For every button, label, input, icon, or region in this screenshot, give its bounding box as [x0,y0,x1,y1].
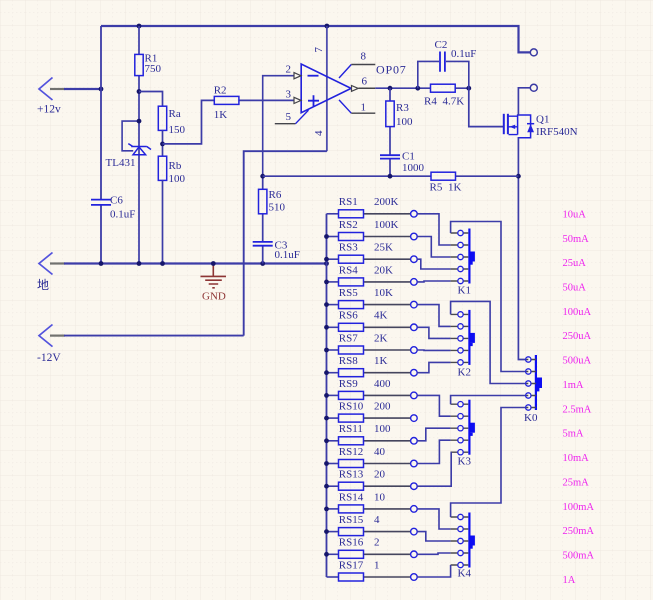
svg-text:RS8: RS8 [339,355,358,367]
node rail bus [324,261,329,266]
wire R6 branch [262,176,264,263]
op-amp pin5 stub [275,110,309,124]
node rail x139 [137,261,142,266]
wire R2 net [163,100,295,143]
svg-text:RS1: RS1 [339,196,358,208]
svg-text:10mA: 10mA [563,453,590,464]
svg-text:RS3: RS3 [339,242,358,254]
net label 10mA [563,453,590,464]
wire RS8-K2c5 [417,362,450,372]
svg-text:RS5: RS5 [339,287,358,299]
resistor RS10 200 [327,401,418,423]
resistor RS12 40 [327,446,418,468]
net label 25uA [563,258,587,269]
node +12v [99,87,104,92]
node bus RS9 [324,393,329,398]
wire TL431 ref bracket [122,121,139,151]
resistor RS9 400 [327,378,418,400]
node bus RS5 [324,302,329,307]
wire RS12-K3c4 [417,440,450,463]
svg-text:1K: 1K [448,181,462,193]
svg-text:1: 1 [374,559,380,571]
svg-text:2K: 2K [374,332,388,344]
node rail x162 [160,261,165,266]
wire RS11-K3c3 [417,428,450,441]
node rail GND [211,261,216,266]
capacitor C1 [380,150,425,174]
svg-text:1000: 1000 [402,162,425,174]
node top-rail R1 [137,24,142,29]
node R5 row R3 [388,174,393,179]
svg-text:0.1uF: 0.1uF [110,208,135,220]
wire RS3-K1c4 [417,259,450,269]
node bus RS3 [324,257,329,262]
net label 1mA [563,380,584,391]
svg-text:K1: K1 [458,285,471,297]
svg-text:5mA: 5mA [563,429,584,440]
svg-text:6: 6 [362,76,368,88]
node bus RS7 [324,348,329,353]
wire RS16-K4c4 [417,553,450,554]
wire output row [375,87,469,89]
resistor R5 [430,172,462,193]
svg-text:20K: 20K [374,264,393,276]
capacitor C2 [418,39,477,88]
wire top +12V rail [101,26,530,52]
terminal circle T2 [530,84,537,91]
net label 50mA [563,234,590,245]
svg-text:8: 8 [361,51,367,63]
capacitor C6 [91,195,135,221]
svg-text:TL431: TL431 [106,157,136,169]
svg-text:500mA: 500mA [563,551,595,562]
wire RS5-K2c2 [417,305,450,327]
wire R1 to Ra [139,92,163,107]
node TL431 ref [137,119,142,124]
switch K3 [451,400,475,468]
resistor RS6 4K [327,310,418,332]
net label 5mA [563,429,584,440]
net label 1A [563,575,576,586]
svg-text:2: 2 [374,537,380,549]
op-amp pin3 arrow [286,88,302,103]
wire R1 branch x139 [138,26,140,264]
net label 25mA [563,478,590,489]
svg-text:1K: 1K [214,109,228,121]
resistor RS8 1K [327,355,418,377]
svg-text:+12v: +12v [37,104,61,116]
svg-text:1mA: 1mA [563,380,584,391]
svg-text:IRF540N: IRF540N [536,126,578,138]
svg-text:RS15: RS15 [339,514,364,526]
svg-text:0.1uF: 0.1uF [451,48,476,60]
resistor RS2 100K [327,219,418,241]
wire RS14-K4c2 [417,509,450,529]
svg-text:20: 20 [374,469,386,481]
svg-text:10: 10 [374,491,386,503]
op-amp pin7 label [313,47,325,53]
port GND-cn (地) [37,253,65,293]
svg-text:RS11: RS11 [339,423,363,435]
resistor Rb [158,156,185,185]
switch K0 [524,355,542,424]
wire left vertical x101 [100,26,102,264]
wire -12V to op-amp pin4 [64,151,327,335]
net label 50uA [563,283,587,294]
node bus RS6 [324,325,329,330]
op-amp pin4 label [313,130,325,136]
ground GND symbol [201,265,227,303]
resistor R6 [259,189,286,214]
wire RS9-K3c2 [417,395,450,416]
svg-text:RS14: RS14 [339,491,364,503]
wire K1 out to K0 c2 [451,222,526,372]
svg-text:K0: K0 [524,412,538,424]
wire K4 out to K0 c5 [451,408,526,518]
svg-text:RS7: RS7 [339,332,358,344]
op-amp pin1 stub [339,100,375,114]
resistor RS1 200K [327,196,418,218]
resistor RS15 4 [327,514,418,536]
svg-text:25uA: 25uA [563,258,587,269]
wire op-amp power vertical pins 7-4 [326,26,328,151]
svg-text:1A: 1A [563,575,576,586]
svg-text:R3: R3 [396,102,409,114]
svg-text:R2: R2 [214,85,227,97]
svg-text:C6: C6 [110,195,123,207]
node out R3 [388,86,393,91]
net label 500mA [563,551,595,562]
resistor R2 [214,85,239,121]
svg-text:RS12: RS12 [339,446,363,458]
svg-text:RS17: RS17 [339,559,364,571]
net label 10uA [563,209,587,220]
switch K2 [451,310,475,379]
svg-text:250uA: 250uA [563,331,592,342]
wire RS7-K2c4 [417,349,450,351]
node bus RS14 [324,507,329,512]
svg-text:RS16: RS16 [339,537,364,549]
svg-text:200K: 200K [374,196,399,208]
svg-text:100: 100 [169,173,186,185]
svg-text:100: 100 [374,423,391,435]
svg-text:2: 2 [286,64,292,76]
node Q1 source R5 row [516,174,521,179]
resistor RS5 10K [327,287,418,309]
svg-text:750: 750 [145,63,162,75]
wire RS4-K1c5 [417,280,450,283]
resistor RS4 20K [327,264,418,286]
svg-text:K3: K3 [458,456,472,468]
op-amp pin8 stub [339,51,375,79]
svg-text:-12V: -12V [37,352,61,364]
svg-text:Rb: Rb [169,160,182,172]
svg-text:5: 5 [286,111,292,123]
port -12V [37,325,65,365]
node out C2R [466,86,471,91]
net label 100uA [563,307,592,318]
svg-text:Q1: Q1 [536,114,549,126]
svg-text:400: 400 [374,378,391,390]
svg-text:OP07: OP07 [376,63,407,77]
node bus RS12 [324,461,329,466]
svg-text:100uA: 100uA [563,307,592,318]
wire gate route [469,88,504,126]
svg-text:25mA: 25mA [563,478,590,489]
svg-text:RS4: RS4 [339,264,358,276]
svg-text:GND: GND [202,291,226,303]
svg-text:100mA: 100mA [563,502,595,513]
node rail x262 [260,261,265,266]
wire Ra-Rb [162,130,164,156]
node bus RS15 [324,529,329,534]
svg-text:R4: R4 [424,96,437,108]
node top-rail pin7 [325,24,330,29]
op-amp pin2 arrow [286,64,302,79]
wire +12v to bus [64,88,101,90]
node bus RS8 [324,370,329,375]
capacitor C3 [253,239,300,261]
node bus RS16 [324,552,329,557]
svg-text:Ra: Ra [169,108,181,120]
node out C2L [415,86,420,91]
svg-text:RS9: RS9 [339,378,358,390]
node R1 bottom [137,89,142,94]
resistor RS11 100 [327,423,418,445]
resistor RS3 25K [327,242,418,264]
op-amp U1 OP07 body [301,63,406,113]
wire RS13-K3c5 [417,452,451,486]
wire op-amp pin2 net [263,76,294,177]
svg-text:地: 地 [37,278,49,292]
svg-text:50mA: 50mA [563,234,590,245]
svg-text:10uA: 10uA [563,209,587,220]
net label 2.5mA [563,404,592,415]
diode TL431 [106,144,152,169]
node rail x101 [99,261,104,266]
switch K1 [451,229,475,297]
node bus RS13 [324,484,329,489]
node pin2-R5 row [260,174,265,179]
svg-text:0.1uF: 0.1uF [275,249,300,261]
svg-text:510: 510 [269,202,286,214]
svg-text:K2: K2 [458,367,471,379]
wire ground rail [64,262,327,264]
svg-text:R5: R5 [430,181,443,193]
wire RS1-K1c2 [417,214,450,245]
wire K3 out to K0 c4 [451,396,526,405]
wire RS2-K1c3 [417,237,450,258]
wire Rb to ground rail [162,180,164,263]
resistor RS16 2 [327,537,418,559]
svg-text:K4: K4 [458,568,472,580]
switch K4 [451,513,475,580]
resistor R1 [135,53,162,76]
svg-text:200: 200 [374,401,391,413]
svg-text:2.5mA: 2.5mA [563,404,592,415]
node bus RS2 [324,234,329,239]
svg-text:C1: C1 [402,150,415,162]
resistor RS14 10 [327,491,418,513]
svg-text:3: 3 [286,88,292,100]
svg-text:250mA: 250mA [563,526,595,537]
resistor RS17 1 [327,559,418,581]
svg-text:100: 100 [396,116,413,128]
resistor RS7 2K [327,332,418,354]
wire Q1 source to K0 [518,138,525,360]
terminal circle T1 [530,49,537,56]
transistor Q1 IRF540N [504,114,578,138]
resistor R3 [386,101,413,128]
node bus RS10 [324,416,329,421]
svg-text:500uA: 500uA [563,356,592,367]
wire R3 branch [389,88,391,176]
resistor R4 [424,84,464,107]
svg-text:RS6: RS6 [339,310,358,322]
op-amp pin6 output arrow [352,76,376,92]
svg-text:150: 150 [169,124,186,136]
svg-text:R6: R6 [269,189,282,201]
node Ra-Rb [160,142,165,147]
port +12v [37,78,65,116]
svg-text:25K: 25K [374,242,393,254]
svg-text:40: 40 [374,446,386,458]
svg-text:7: 7 [313,47,325,53]
resistor RS13 20 [327,469,418,491]
wire ladder bus [326,214,328,577]
net label 500uA [563,356,592,367]
wire RS15-K4c3 [417,532,450,541]
wire K2 out to K0 c3 [451,301,526,383]
svg-text:4: 4 [313,130,325,136]
svg-text:RS10: RS10 [339,401,364,413]
svg-text:RS13: RS13 [339,469,364,481]
node bus RS4 [324,280,329,285]
svg-text:100K: 100K [374,219,399,231]
node bus RS11 [324,438,329,443]
wire R5 row [263,175,519,177]
net label 100mA [563,502,595,513]
svg-text:1K: 1K [374,355,388,367]
svg-text:50uA: 50uA [563,283,587,294]
svg-text:RS2: RS2 [339,219,358,231]
svg-text:10K: 10K [374,287,393,299]
svg-text:4.7K: 4.7K [443,96,465,108]
svg-text:4K: 4K [374,310,388,322]
svg-text:4: 4 [374,514,380,526]
wire Q1 drain [518,88,530,115]
svg-text:1: 1 [361,102,367,114]
wire RS17-K4c5 [417,565,450,577]
wire RS6-K2c3 [417,327,450,338]
resistor Ra [158,106,185,136]
net label 250mA [563,526,595,537]
svg-text:C2: C2 [435,39,448,51]
net label 250uA [563,331,592,342]
